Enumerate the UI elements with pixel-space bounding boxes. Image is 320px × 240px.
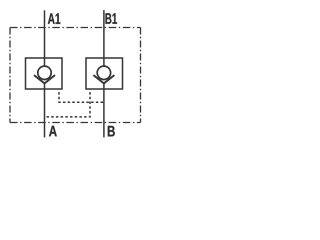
check valve CV1 ball <box>38 66 51 79</box>
enclosure (dash-dot valve block boundary) <box>10 28 141 123</box>
pilot line: CV1 pilot port to line B (dashed) <box>59 90 104 103</box>
wire: port A1 to check valve CV1 inlet <box>44 10 46 66</box>
wire: check valve CV1 outlet to port A <box>44 83 46 137</box>
check valve CV1 body <box>26 58 63 89</box>
check valve CV2 ball <box>97 66 110 79</box>
label A <box>49 126 57 137</box>
check valve CV1 seat <box>34 75 55 83</box>
label A1 <box>48 13 60 24</box>
check valve CV2 seat <box>93 75 114 83</box>
wire: check valve CV2 outlet to port B <box>103 83 105 137</box>
pilot line: CV2 pilot port to line A (dashed) <box>45 90 91 117</box>
label B1 <box>106 13 118 23</box>
label B <box>108 126 115 136</box>
wire: port B1 to check valve CV2 inlet <box>103 10 105 66</box>
check valve CV2 body <box>86 58 123 89</box>
